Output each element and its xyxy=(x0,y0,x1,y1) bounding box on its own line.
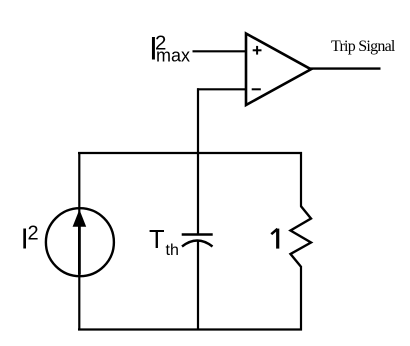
op-amp U1 (comparator) xyxy=(246,34,311,106)
label Tth (capacitor value) xyxy=(149,226,179,259)
wire: output to Trip Signal xyxy=(310,67,381,69)
label 1 (resistor value) xyxy=(271,229,277,249)
pin + (non-inverting input marker) xyxy=(253,46,262,55)
capacitor C1 xyxy=(182,235,213,247)
current source I1 xyxy=(46,208,114,276)
svg-text:T: T xyxy=(149,226,165,254)
label I2 (current source value) xyxy=(21,223,39,256)
svg-text:th: th xyxy=(166,242,179,259)
svg-text:2: 2 xyxy=(28,223,39,245)
wire: right branch bottom stub xyxy=(300,266,302,331)
wire: capacitor bottom to bottom rail xyxy=(197,241,199,330)
wire: right branch top stub xyxy=(300,152,302,207)
resistor R1 xyxy=(291,206,312,267)
wire: middle vertical (node between - input and capacitor top) xyxy=(197,88,199,234)
wire: left branch vertical xyxy=(78,152,80,331)
pin - (inverting input marker) xyxy=(252,88,261,90)
label I2max (comparator threshold) xyxy=(149,31,190,67)
wire: - input horizontal segment xyxy=(197,88,247,90)
svg-text:max: max xyxy=(156,46,190,66)
svg-text:Trip Signal: Trip Signal xyxy=(331,38,396,55)
wire: bottom rail xyxy=(78,328,302,330)
wire: I2max to + input xyxy=(193,50,248,52)
wire: top rail xyxy=(78,152,302,154)
